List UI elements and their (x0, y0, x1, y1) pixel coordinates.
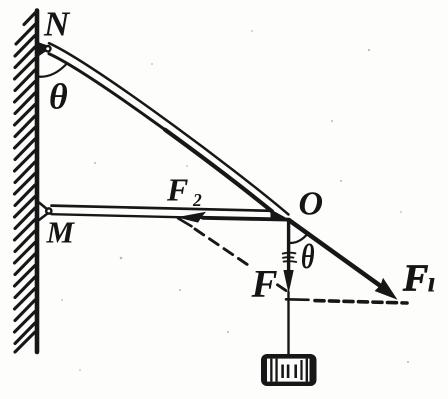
svg-text:2: 2 (192, 190, 202, 210)
force F2 arrowhead (177, 212, 207, 223)
dashed line F2tip to Ftip (195, 229, 250, 266)
force F1 arrow shaft (290, 221, 383, 288)
svg-text:F: F (166, 172, 188, 208)
svg-text:θ: θ (49, 77, 68, 117)
svg-text:F: F (402, 258, 428, 300)
vertical line O to F (287, 220, 290, 272)
angle arc at O (289, 234, 308, 243)
rope N-O lower line (49, 54, 272, 212)
rope N-O upper line (49, 43, 289, 214)
paper speckles (61, 30, 409, 371)
svg-text:ı: ı (428, 266, 436, 299)
junction fill at O (271, 209, 292, 221)
svg-text:θ: θ (301, 237, 315, 276)
tick marks on OF line (283, 252, 296, 255)
pin M (46, 208, 51, 213)
pin bracket at N (38, 42, 47, 58)
svg-text:N: N (43, 5, 71, 44)
force F2 arrow shaft (203, 218, 289, 220)
pin bracket at M (39, 203, 48, 210)
svg-text:O: O (299, 186, 324, 223)
F2 arrow lower barb (178, 218, 192, 226)
rod M-O top line (52, 206, 272, 211)
dashed line Ftip to F1tip (315, 301, 407, 303)
rod M-O bottom line (52, 214, 291, 220)
svg-text:F: F (251, 263, 278, 306)
pin N (45, 46, 50, 51)
weight block (261, 354, 317, 386)
force F arrowhead (283, 270, 293, 294)
wall (35, 11, 40, 353)
force F1 arrowhead (375, 278, 398, 300)
wall hatching (15, 13, 36, 353)
string to weight (287, 292, 289, 356)
dashed line Ftip to F1tip, first solid tick (286, 298, 309, 301)
angle arc at N (38, 65, 67, 77)
svg-text:M: M (46, 215, 76, 250)
rope lower line thick part (165, 130, 272, 212)
